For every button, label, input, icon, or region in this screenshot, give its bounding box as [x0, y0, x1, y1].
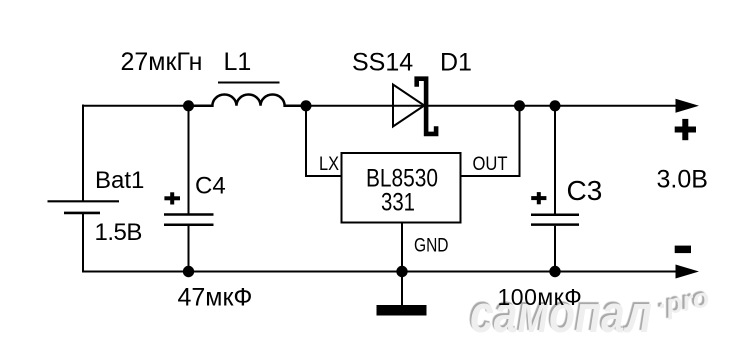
wire LX lead [306, 106, 342, 177]
svg-text:47мкФ: 47мкФ [178, 284, 253, 312]
svg-text:SS14: SS14 [352, 49, 413, 77]
node junction dot L1 right / LX [301, 100, 312, 111]
ground [377, 305, 427, 316]
capacitor C4 polarity plus [164, 192, 180, 204]
svg-text:3.0В: 3.0В [657, 166, 708, 194]
wire battery top lead [82, 105, 84, 202]
svg-text:D1: D1 [440, 49, 472, 77]
watermark самопал [470, 284, 652, 345]
battery Bat1 short plate [64, 212, 100, 215]
node junction dot C4 bottom [183, 266, 194, 277]
wire C4 bottom lead [188, 226, 190, 272]
diode D1 triangle [393, 85, 424, 127]
node junction dot OUT [514, 100, 525, 111]
watermark .pro [655, 282, 712, 322]
output plus symbol [675, 119, 696, 140]
capacitor C3 plates [531, 215, 579, 225]
svg-text:C4: C4 [195, 173, 226, 200]
diode D1 schottky cathode bar [417, 79, 436, 134]
inductor L1 [189, 94, 307, 105]
svg-text:100мкФ: 100мкФ [498, 284, 583, 310]
svg-text:27мкГн: 27мкГн [121, 48, 203, 76]
svg-text:C3: C3 [567, 175, 603, 206]
node junction dot L1 left / C4 top [183, 100, 194, 111]
capacitor C3 polarity plus [531, 192, 546, 204]
svg-text:OUT: OUT [473, 154, 508, 175]
svg-text:1.5В: 1.5В [95, 219, 142, 246]
wire top rail right [306, 105, 677, 107]
wire OUT lead [461, 106, 520, 177]
svg-text:L1: L1 [224, 48, 252, 76]
wire C3 bottom lead [554, 226, 556, 272]
wire C4 top lead [188, 106, 190, 214]
battery Bat1 long plate [48, 200, 120, 202]
output minus symbol [675, 246, 691, 254]
node junction dot C3 top [550, 100, 561, 111]
svg-text:GND: GND [414, 236, 449, 257]
arrow output minus [676, 265, 700, 279]
wire top rail left [82, 105, 190, 107]
wire bottom rail [82, 271, 677, 273]
inductor L1 overline [218, 82, 280, 84]
op IC U1 BL8530 box [342, 153, 461, 223]
node junction dot GND [396, 266, 407, 277]
arrow output plus [676, 99, 700, 113]
svg-text:Bat1: Bat1 [95, 167, 144, 194]
svg-text:LX: LX [319, 154, 339, 175]
svg-text:331: 331 [381, 189, 415, 217]
wire C3 top lead [554, 106, 556, 214]
wire GND lead [401, 223, 403, 306]
wire battery bottom lead [82, 213, 84, 273]
node junction dot C3 bottom [549, 266, 560, 277]
capacitor C4 plates [164, 215, 214, 225]
